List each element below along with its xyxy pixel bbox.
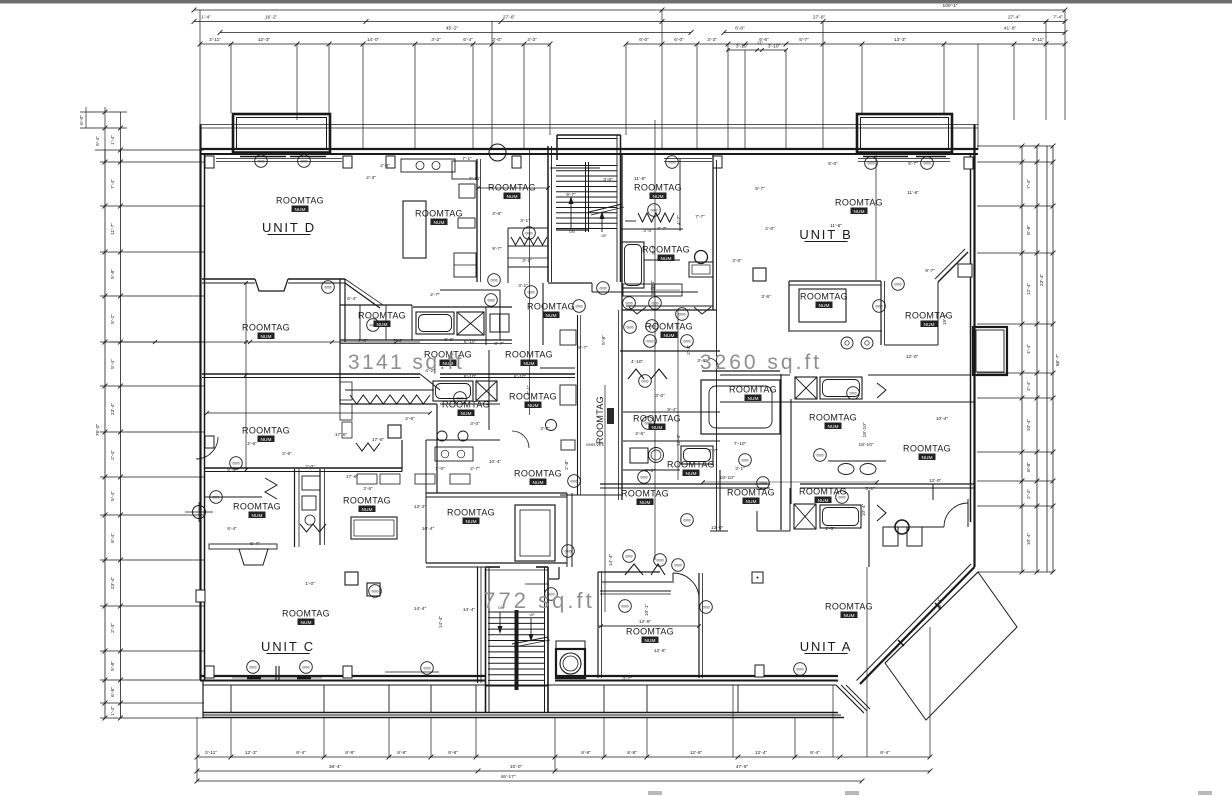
svg-text:18’-10”: 18’-10” xyxy=(720,475,735,481)
svg-text:5’-8”: 5’-8” xyxy=(110,269,116,279)
svg-text:NUM: NUM xyxy=(533,480,544,486)
svg-text:3’-2”: 3’-2” xyxy=(651,245,657,255)
svg-text:0000: 0000 xyxy=(249,666,256,670)
svg-text:NUM: NUM xyxy=(524,361,535,367)
svg-text:2’-7”: 2’-7” xyxy=(470,466,480,472)
svg-text:0000: 0000 xyxy=(894,283,901,287)
svg-text:NUM: NUM xyxy=(828,424,839,430)
svg-text:15’-4”: 15’-4” xyxy=(942,312,948,325)
svg-text:8’-6”: 8’-6” xyxy=(645,468,655,474)
svg-text:8’-8”: 8’-8” xyxy=(397,750,407,756)
svg-text:12’-4”: 12’-4” xyxy=(1026,282,1032,295)
svg-text:66’-7”: 66’-7” xyxy=(1055,353,1061,366)
svg-text:ROOMTAG: ROOMTAG xyxy=(343,496,391,506)
svg-text:3’-1”: 3’-1” xyxy=(518,283,528,289)
svg-text:5’-1”: 5’-1” xyxy=(865,486,875,492)
svg-text:1’-0”: 1’-0” xyxy=(305,581,315,587)
svg-text:10’-4”: 10’-4” xyxy=(422,526,435,532)
svg-text:ROOMTAG: ROOMTAG xyxy=(595,396,605,444)
svg-text:17’-6”: 17’-6” xyxy=(372,437,385,443)
svg-text:8’-4”: 8’-4” xyxy=(110,533,116,543)
svg-text:NUM: NUM xyxy=(818,498,829,504)
svg-text:0000: 0000 xyxy=(641,380,648,384)
svg-text:3’-0”: 3’-0” xyxy=(732,258,742,264)
svg-text:12’-3”: 12’-3” xyxy=(245,750,258,756)
svg-text:NUM: NUM xyxy=(546,313,557,319)
svg-text:3260 sq.ft: 3260 sq.ft xyxy=(700,351,822,374)
svg-text:3’-7”: 3’-7” xyxy=(708,448,718,454)
svg-text:6’-10”: 6’-10” xyxy=(464,339,477,345)
svg-text:ROOMTAG: ROOMTAG xyxy=(282,609,330,619)
svg-text:NUM: NUM xyxy=(819,303,830,309)
svg-text:0000: 0000 xyxy=(302,666,309,670)
svg-text:9’-4”: 9’-4” xyxy=(667,407,677,413)
svg-text:772 sq.ft: 772 sq.ft xyxy=(483,588,594,613)
svg-text:8’-4”: 8’-4” xyxy=(810,750,820,756)
svg-text:3’-6”: 3’-6” xyxy=(363,486,373,492)
svg-text:3’-7”: 3’-7” xyxy=(622,676,632,682)
svg-text:0000: 0000 xyxy=(625,555,632,559)
svg-text:3’-0”: 3’-0” xyxy=(643,228,653,234)
svg-text:0000: 0000 xyxy=(575,305,582,309)
svg-text:ROOMTAG: ROOMTAG xyxy=(642,245,690,255)
svg-text:ROOMTAG: ROOMTAG xyxy=(835,198,883,208)
svg-text:7’-7”: 7’-7” xyxy=(695,214,705,220)
svg-text:23’-4”: 23’-4” xyxy=(110,402,116,415)
svg-text:27’-6”: 27’-6” xyxy=(503,15,516,21)
svg-text:10’-0”: 10’-0” xyxy=(510,764,523,770)
svg-text:13’-3”: 13’-3” xyxy=(894,37,907,43)
svg-text:NUM: NUM xyxy=(528,403,539,409)
svg-text:3’-6”: 3’-6” xyxy=(697,358,707,364)
svg-text:8’-8”: 8’-8” xyxy=(581,750,591,756)
svg-text:ROOMTAG: ROOMTAG xyxy=(442,400,490,410)
svg-text:ROOMTAG: ROOMTAG xyxy=(509,392,557,402)
svg-text:0000: 0000 xyxy=(570,480,577,484)
svg-text:ROOMTAG: ROOMTAG xyxy=(799,487,847,497)
svg-text:11”: 11” xyxy=(757,41,764,47)
svg-text:18’-10”: 18’-10” xyxy=(862,422,868,437)
svg-text:12’-3”: 12’-3” xyxy=(258,37,271,43)
svg-text:2’-4”: 2’-4” xyxy=(1026,381,1032,391)
svg-text:NUM: NUM xyxy=(301,620,312,626)
svg-text:3’-0”: 3’-0” xyxy=(492,37,502,43)
svg-text:NUM: NUM xyxy=(377,322,388,328)
svg-text:0000: 0000 xyxy=(527,291,534,295)
svg-text:3’-1”: 3’-1” xyxy=(735,466,745,472)
svg-text:5’-0”: 5’-0” xyxy=(828,161,838,167)
svg-text:0000: 0000 xyxy=(640,476,647,480)
svg-text:6’-0”: 6’-0” xyxy=(674,37,684,43)
svg-text:7’-7”: 7’-7” xyxy=(657,226,667,232)
svg-text:7’-4”: 7’-4” xyxy=(393,338,403,344)
svg-text:NUM: NUM xyxy=(844,613,855,619)
svg-text:12’-2”: 12’-2” xyxy=(414,504,427,510)
svg-text:12’-6”: 12’-6” xyxy=(654,648,667,654)
svg-text:45’-2”: 45’-2” xyxy=(446,26,459,32)
svg-text:ROOMTAG: ROOMTAG xyxy=(825,602,873,612)
svg-text:8’-0”: 8’-0” xyxy=(227,467,237,473)
svg-text:ROOMTAG: ROOMTAG xyxy=(242,426,290,436)
svg-text:0000: 0000 xyxy=(490,279,497,283)
svg-text:0000: 0000 xyxy=(816,454,823,458)
svg-text:14’-4”: 14’-4” xyxy=(463,607,476,613)
svg-text:2’-4”: 2’-4” xyxy=(686,345,692,355)
svg-text:9’-7”: 9’-7” xyxy=(566,192,576,198)
svg-text:0000: 0000 xyxy=(300,160,307,164)
svg-text:ROOMTAG: ROOMTAG xyxy=(645,322,693,332)
svg-text:ROOMTAG: ROOMTAG xyxy=(447,508,495,518)
svg-text:6’-0”: 6’-0” xyxy=(639,37,649,43)
svg-text:12’-6”: 12’-6” xyxy=(639,619,652,625)
svg-text:9’-7”: 9’-7” xyxy=(755,186,765,192)
svg-text:1’-4”: 1’-4” xyxy=(110,706,116,716)
svg-text:4’-10”: 4’-10” xyxy=(631,359,644,365)
svg-text:DN: DN xyxy=(569,230,575,234)
svg-text:4’-7”: 4’-7” xyxy=(676,215,682,225)
svg-text:14’-4”: 14’-4” xyxy=(414,606,427,612)
svg-text:5’-8”: 5’-8” xyxy=(110,661,116,671)
svg-text:3’-3”: 3’-3” xyxy=(707,37,717,43)
svg-text:ROOMTAG: ROOMTAG xyxy=(514,469,562,479)
svg-text:UNIT D: UNIT D xyxy=(262,220,316,235)
svg-text:3’-1”: 3’-1” xyxy=(520,218,530,224)
svg-text:14’-4”: 14’-4” xyxy=(608,553,614,566)
svg-text:7’-11”: 7’-11” xyxy=(469,176,481,182)
svg-text:ROOMTAG: ROOMTAG xyxy=(626,627,674,637)
svg-text:UP: UP xyxy=(602,234,608,238)
svg-text:10’-4”: 10’-4” xyxy=(1026,532,1032,545)
svg-text:5’-4”: 5’-4” xyxy=(110,359,116,369)
svg-text:NUM: NUM xyxy=(664,333,675,339)
svg-text:ROOMTAG: ROOMTAG xyxy=(358,311,406,321)
svg-text:8’-8”: 8’-8” xyxy=(345,750,355,756)
svg-text:2’-3”: 2’-3” xyxy=(380,163,390,169)
svg-text:23’-4”: 23’-4” xyxy=(1039,273,1045,286)
svg-text:2’-0”: 2’-0” xyxy=(358,338,368,344)
svg-text:27’-6”: 27’-6” xyxy=(813,15,826,21)
svg-text:UNIT B: UNIT B xyxy=(799,227,852,242)
svg-text:2’-0”: 2’-0” xyxy=(765,226,775,232)
svg-text:NUM: NUM xyxy=(466,519,477,525)
svg-text:NUM: NUM xyxy=(252,513,263,519)
svg-text:0000: 0000 xyxy=(678,313,685,317)
svg-text:3’-2”: 3’-2” xyxy=(431,37,441,43)
svg-text:0000: 0000 xyxy=(668,161,675,165)
svg-text:ROOMTAG: ROOMTAG xyxy=(903,444,951,454)
svg-text:0000: 0000 xyxy=(324,286,331,290)
svg-text:7’-4”: 7’-4” xyxy=(1026,179,1032,189)
svg-text:8’-9”: 8’-9” xyxy=(444,337,454,343)
svg-text:0000: 0000 xyxy=(683,519,690,523)
svg-text:12’-8”: 12’-8” xyxy=(690,750,703,756)
svg-text:6’-10”: 6’-10” xyxy=(514,374,527,380)
svg-text:ROOMTAG: ROOMTAG xyxy=(727,488,775,498)
svg-text:NUM: NUM xyxy=(748,396,759,402)
svg-text:5’-8”: 5’-8” xyxy=(601,335,607,345)
svg-text:2’-3”: 2’-3” xyxy=(366,175,376,181)
svg-text:16’-2”: 16’-2” xyxy=(265,15,278,21)
svg-text:NUM: NUM xyxy=(645,638,656,644)
svg-text:6’-4”: 6’-4” xyxy=(347,296,357,302)
svg-text:ROOMTAG: ROOMTAG xyxy=(633,414,681,424)
svg-text:7’-1”: 7’-1” xyxy=(462,156,472,162)
svg-text:0000: 0000 xyxy=(626,326,633,330)
svg-text:5’-7”: 5’-7” xyxy=(799,37,809,43)
svg-text:2’-0”: 2’-0” xyxy=(305,464,315,470)
svg-text:0000: 0000 xyxy=(646,340,653,344)
svg-text:11’-7”: 11’-7” xyxy=(110,223,116,235)
svg-text:0000: 0000 xyxy=(741,459,748,463)
svg-text:2’-4”: 2’-4” xyxy=(1026,489,1032,499)
svg-text:2’-8”: 2’-8” xyxy=(564,460,570,470)
svg-text:2’-6”: 2’-6” xyxy=(282,451,292,457)
svg-text:3’-7”: 3’-7” xyxy=(540,426,550,432)
svg-text:3’-3”: 3’-3” xyxy=(527,37,537,43)
svg-text:9’-7”: 9’-7” xyxy=(492,246,502,252)
svg-text:41’-8”: 41’-8” xyxy=(1004,26,1017,32)
svg-text:NUM: NUM xyxy=(924,322,935,328)
svg-text:ROOMTAG: ROOMTAG xyxy=(415,209,463,219)
svg-text:3’-0”: 3’-0” xyxy=(470,421,480,427)
svg-text:NUM: NUM xyxy=(261,437,272,443)
svg-text:UNIT A: UNIT A xyxy=(800,639,852,654)
svg-text:27’-4”: 27’-4” xyxy=(1008,15,1021,21)
svg-text:18’-10”: 18’-10” xyxy=(859,442,874,448)
svg-text:3’-1”: 3’-1” xyxy=(522,258,532,264)
svg-text:5’-7”: 5’-7” xyxy=(908,161,918,167)
svg-text:11’-6”: 11’-6” xyxy=(634,176,646,182)
svg-text:ROOMTAG: ROOMTAG xyxy=(505,350,553,360)
svg-text:NUM: NUM xyxy=(746,499,757,505)
svg-text:0000: 0000 xyxy=(702,606,709,610)
svg-text:8’-8”: 8’-8” xyxy=(1026,462,1032,472)
svg-text:7’-4”: 7’-4” xyxy=(110,179,116,189)
svg-text:0000: 0000 xyxy=(525,232,532,236)
svg-text:ROOMTAG: ROOMTAG xyxy=(233,502,281,512)
svg-text:2’-6”: 2’-6” xyxy=(405,416,415,422)
svg-text:ROOMTAG: ROOMTAG xyxy=(809,413,857,423)
svg-text:ROOMTAG: ROOMTAG xyxy=(729,385,777,395)
svg-text:ROOMTAG: ROOMTAG xyxy=(621,489,669,499)
svg-text:ROOMTAG: ROOMTAG xyxy=(634,183,682,193)
svg-text:2’-1”: 2’-1” xyxy=(526,385,532,395)
svg-text:12’-4”: 12’-4” xyxy=(755,750,768,756)
svg-text:0000: 0000 xyxy=(923,162,930,166)
svg-text:0000: 0000 xyxy=(212,496,219,500)
svg-text:8’-8”: 8’-8” xyxy=(1026,225,1032,235)
svg-text:NUM: NUM xyxy=(362,507,373,513)
svg-text:3’-6”: 3’-6” xyxy=(761,294,771,300)
svg-text:0000: 0000 xyxy=(650,209,657,213)
svg-text:2’-4”: 2’-4” xyxy=(110,450,116,460)
svg-text:23’-4”: 23’-4” xyxy=(110,576,116,589)
svg-text:NUM: NUM xyxy=(854,209,865,215)
svg-text:NUM: NUM xyxy=(653,194,664,200)
svg-text:17’-6”: 17’-6” xyxy=(335,432,348,438)
svg-text:76’-0”: 76’-0” xyxy=(95,423,101,436)
svg-text:0000: 0000 xyxy=(423,667,430,671)
svg-text:11’-6”: 11’-6” xyxy=(830,223,842,229)
svg-text:3’-6”: 3’-6” xyxy=(492,211,502,217)
svg-text:3’-0”: 3’-0” xyxy=(603,177,613,183)
svg-text:6’-0”: 6’-0” xyxy=(79,115,85,125)
svg-text:5’-4”: 5’-4” xyxy=(250,541,260,547)
svg-text:1’-4”: 1’-4” xyxy=(201,15,211,21)
svg-text:6’-0”: 6’-0” xyxy=(735,26,745,32)
svg-text:NUM: NUM xyxy=(461,411,472,417)
svg-text:10’-4”: 10’-4” xyxy=(1026,418,1032,431)
svg-text:NUM: NUM xyxy=(295,207,306,213)
svg-text:NUM: NUM xyxy=(661,256,672,262)
svg-text:4’-2”: 4’-2” xyxy=(425,368,435,374)
svg-text:5’-4”: 5’-4” xyxy=(650,280,656,290)
svg-text:ROOMTAG: ROOMTAG xyxy=(527,302,575,312)
svg-text:8’-4”: 8’-4” xyxy=(227,526,237,532)
svg-text:0000: 0000 xyxy=(674,564,681,568)
svg-text:3’-11”: 3’-11” xyxy=(205,750,217,756)
svg-text:0000: 0000 xyxy=(849,392,856,396)
svg-text:10’-4”: 10’-4” xyxy=(489,459,502,465)
svg-text:8’-7”: 8’-7” xyxy=(494,341,504,347)
svg-text:0000: 0000 xyxy=(621,605,628,609)
svg-text:10’-1”: 10’-1” xyxy=(644,603,650,616)
svg-text:ROOMTAG: ROOMTAG xyxy=(488,183,536,193)
svg-text:2’-3”: 2’-3” xyxy=(110,623,116,633)
svg-text:12’-0”: 12’-0” xyxy=(929,478,942,484)
svg-text:12’-0”: 12’-0” xyxy=(711,525,724,531)
svg-text:0000: 0000 xyxy=(759,482,766,486)
svg-text:4’-4”: 4’-4” xyxy=(1026,344,1032,354)
svg-text:3’-11”: 3’-11” xyxy=(209,37,221,43)
svg-text:14’-4”: 14’-4” xyxy=(438,615,444,628)
svg-text:11’-6”: 11’-6” xyxy=(907,190,919,196)
svg-text:38’-4”: 38’-4” xyxy=(329,764,342,770)
svg-text:1’-4”: 1’-4” xyxy=(110,135,116,145)
svg-text:ROOMTAG: ROOMTAG xyxy=(667,460,715,470)
svg-text:8’-10”: 8’-10” xyxy=(464,374,477,380)
svg-text:2’-5”: 2’-5” xyxy=(825,526,835,532)
svg-text:7’-10”: 7’-10” xyxy=(734,441,747,447)
svg-text:1’-0”: 1’-0” xyxy=(435,466,445,472)
svg-text:NUM: NUM xyxy=(507,194,518,200)
svg-text:13’-4”: 13’-4” xyxy=(937,597,943,610)
svg-text:NUM: NUM xyxy=(434,220,445,226)
svg-text:NUM: NUM xyxy=(261,334,272,340)
svg-text:10’-4”: 10’-4” xyxy=(861,503,867,516)
svg-text:5’-2”: 5’-2” xyxy=(110,314,116,324)
svg-text:2’-7”: 2’-7” xyxy=(430,292,440,298)
svg-text:0000: 0000 xyxy=(867,162,874,166)
svg-text:3’-10”: 3’-10” xyxy=(736,44,749,50)
svg-text:0000: 0000 xyxy=(257,160,264,164)
svg-text:7’-4”: 7’-4” xyxy=(1053,15,1063,21)
svg-text:3141 sq.ft: 3141 sq.ft xyxy=(348,351,464,374)
svg-text:0000: 0000 xyxy=(625,302,632,306)
svg-text:2’-6”: 2’-6” xyxy=(635,431,645,437)
svg-text:8’-4”: 8’-4” xyxy=(880,750,890,756)
svg-text:NUM: NUM xyxy=(640,500,651,506)
svg-text:5’-4”: 5’-4” xyxy=(110,491,116,501)
svg-text:2’-6”: 2’-6” xyxy=(247,441,257,447)
svg-text:0000: 0000 xyxy=(599,287,606,291)
svg-text:0000: 0000 xyxy=(875,305,882,309)
svg-text:3’-11”: 3’-11” xyxy=(1032,37,1044,43)
svg-text:0000: 0000 xyxy=(564,550,571,554)
svg-text:14’-0”: 14’-0” xyxy=(367,37,380,43)
svg-text:6’-8”: 6’-8” xyxy=(110,687,116,697)
svg-text:0000: 0000 xyxy=(796,668,803,672)
svg-text:UNIT C: UNIT C xyxy=(261,639,315,654)
svg-text:5’-4”: 5’-4” xyxy=(95,136,101,146)
svg-text:12’-0”: 12’-0” xyxy=(906,354,919,360)
svg-text:0000: 0000 xyxy=(683,340,690,344)
svg-text:3’-0”: 3’-0” xyxy=(655,393,665,399)
svg-text:NUM: NUM xyxy=(922,455,933,461)
svg-text:0000: 0000 xyxy=(651,302,658,306)
svg-text:3’-10”: 3’-10” xyxy=(768,44,781,50)
svg-text:0000: 0000 xyxy=(487,299,494,303)
svg-text:9’-7”: 9’-7” xyxy=(925,268,935,274)
svg-text:10’-4”: 10’-4” xyxy=(936,416,949,422)
svg-text:0000: 0000 xyxy=(656,559,663,563)
svg-text:ROOMTAG: ROOMTAG xyxy=(242,323,290,333)
svg-text:8’-8”: 8’-8” xyxy=(448,750,458,756)
svg-text:NUM: NUM xyxy=(686,471,697,477)
svg-text:0000: 0000 xyxy=(232,462,239,466)
svg-text:17’-6”: 17’-6” xyxy=(346,474,359,480)
svg-text:8’-8”: 8’-8” xyxy=(627,750,637,756)
svg-text:11’-4”: 11’-4” xyxy=(676,434,682,446)
svg-text:8’-7”: 8’-7” xyxy=(578,345,588,351)
svg-text:47’-6”: 47’-6” xyxy=(736,764,749,770)
svg-text:NUM: NUM xyxy=(652,425,663,431)
svg-text:100’-1”: 100’-1” xyxy=(943,3,958,9)
svg-text:8’-4”: 8’-4” xyxy=(296,750,306,756)
svg-text:6’-4”: 6’-4” xyxy=(463,37,473,43)
svg-text:46’-17”: 46’-17” xyxy=(501,774,516,780)
svg-text:0000: 0000 xyxy=(371,590,378,594)
svg-text:UP: UP xyxy=(530,613,536,617)
svg-text:ROOMTAG: ROOMTAG xyxy=(800,292,848,302)
svg-text:ROOMTAG: ROOMTAG xyxy=(276,196,324,206)
